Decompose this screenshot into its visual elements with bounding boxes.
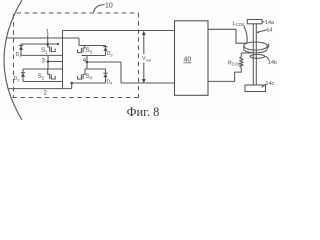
svg-text:S3: S3: [86, 47, 93, 55]
svg-text:2: 2: [44, 91, 48, 97]
svg-text:D4: D4: [107, 80, 113, 86]
svg-text:Фиг. 8: Фиг. 8: [127, 105, 160, 119]
svg-text:10: 10: [105, 3, 113, 10]
svg-text:S1: S1: [41, 47, 48, 55]
svg-text:14c: 14c: [266, 81, 275, 87]
svg-text:S4: S4: [86, 73, 93, 81]
svg-text:1: 1: [46, 30, 50, 36]
svg-text:LCOIL: LCOIL: [233, 21, 247, 27]
svg-text:3: 3: [42, 58, 46, 64]
svg-text:14b: 14b: [268, 60, 277, 66]
svg-text:D2: D2: [14, 76, 20, 82]
svg-text:14a: 14a: [265, 20, 274, 26]
svg-text:40: 40: [184, 57, 192, 64]
svg-text:RCOIL: RCOIL: [228, 61, 242, 67]
svg-text:D3: D3: [107, 51, 113, 57]
svg-text:S2: S2: [38, 73, 45, 81]
svg-text:Vout: Vout: [142, 56, 152, 62]
svg-text:14: 14: [267, 28, 273, 34]
